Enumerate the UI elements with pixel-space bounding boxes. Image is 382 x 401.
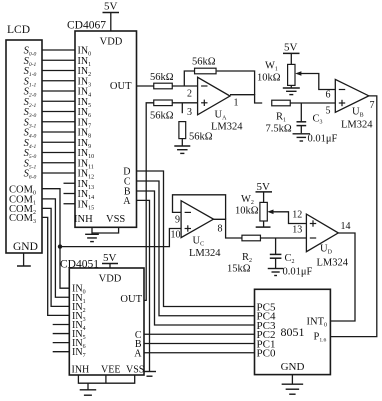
svg-text:LM324: LM324 (317, 258, 349, 269)
LCD COM pin labels COM0..COM3 (9, 184, 36, 225)
svg-text:13: 13 (292, 225, 302, 236)
capacitor C2 (270, 253, 282, 255)
UB inverting input symbol (339, 89, 345, 91)
svg-text:LM324: LM324 (341, 120, 373, 131)
svg-text:5: 5 (326, 106, 331, 117)
wire COM3 to CD4051 IN3 (42, 217, 69, 315)
W2 wiper arrow (267, 210, 273, 215)
wire C to 8051 PC4 (137, 181, 255, 316)
svg-text:56kΩ: 56kΩ (192, 57, 216, 68)
op-amp UB LM324 (335, 79, 369, 112)
microcontroller 8051 block (255, 289, 331, 374)
svg-text:10kΩ: 10kΩ (257, 73, 281, 84)
CD4051 INH VEE VSS pin labels (72, 365, 145, 376)
svg-text:56kΩ: 56kΩ (150, 72, 174, 83)
svg-text:VDD: VDD (99, 274, 122, 285)
svg-text:INT0: INT0 (307, 317, 328, 329)
wire COM2 to CD4051 IN2 (42, 208, 69, 306)
svg-text:0.01μF: 0.01μF (308, 134, 338, 145)
wire UD output to INT0 (330, 233, 355, 321)
wire feedback to output (217, 71, 255, 95)
UC non-inverting input symbol (185, 228, 191, 230)
wire UC feedback loop (173, 195, 226, 220)
wire R2 to UD pin13 (261, 237, 307, 239)
wire UB output to P1.6 (330, 96, 376, 337)
svg-text:6: 6 (326, 90, 331, 101)
wire UC output (214, 219, 243, 238)
unconnected stubs IN4..IN7 (53, 324, 70, 351)
ground (C3) (293, 133, 311, 135)
svg-text:5V: 5V (103, 252, 117, 264)
multiplexer CD4067 block (75, 31, 137, 227)
svg-text:9: 9 (175, 215, 180, 226)
svg-text:8: 8 (218, 224, 223, 235)
svg-text:INH: INH (72, 365, 90, 376)
resistor 56k (pin3 to ground) (179, 122, 186, 139)
CD4051 IN0..IN7 pin labels (72, 284, 86, 359)
op-amp UD LM324 (306, 214, 338, 252)
svg-text:7.5kΩ: 7.5kΩ (266, 124, 292, 135)
wire CD4051 C to 8051 PC2 (144, 333, 255, 335)
svg-text:A: A (123, 196, 131, 207)
CD4051 select pin labels C B A (134, 330, 142, 359)
LCD segment pin labels S0-0..S6-0 (24, 46, 37, 181)
ground (C2) (268, 268, 284, 270)
capacitor C3 (297, 121, 307, 123)
unconnected stubs IN13 IN14 IN15 (64, 183, 76, 204)
svg-text:10: 10 (171, 230, 181, 241)
svg-text:A: A (134, 348, 142, 359)
svg-text:56kΩ: 56kΩ (189, 132, 213, 143)
svg-text:VSS: VSS (126, 365, 144, 376)
multiplexer CD4051 block (69, 268, 144, 375)
svg-text:3: 3 (187, 107, 192, 118)
svg-text:0.01μF: 0.01μF (283, 267, 313, 278)
wires S0-0..S6-0 to IN0..IN12 (42, 50, 75, 173)
svg-text:GND: GND (13, 241, 38, 253)
svg-text:VSS: VSS (106, 214, 125, 225)
svg-text:LCD: LCD (7, 24, 30, 36)
ground (CD4051) (87, 383, 89, 390)
wire R1 to UB pin5 (290, 102, 335, 104)
capacitor C3 lead (300, 103, 302, 122)
svg-text:5V: 5V (284, 42, 298, 54)
svg-text:COM3: COM3 (9, 213, 36, 225)
potentiometer W1 10k body (288, 64, 295, 85)
wire B to 8051 PC3 (137, 191, 255, 325)
wire pin3 to ground resistor (181, 103, 183, 113)
capacitor C2 lead (275, 238, 277, 254)
resistor 56k (to pin3) (154, 100, 173, 106)
resistor R2 15k (242, 235, 261, 241)
UB non-inverting input symbol (339, 102, 345, 104)
wire A down to ground near CD4051 (137, 200, 150, 371)
junction COM0 tap (58, 244, 62, 248)
svg-text:OUT: OUT (120, 294, 142, 305)
op-amp UA LM324 (198, 77, 230, 115)
resistor R1 7.5k (272, 100, 291, 106)
svg-text:CD4067: CD4067 (67, 20, 106, 32)
svg-text:12: 12 (292, 209, 302, 220)
svg-text:2: 2 (187, 89, 192, 100)
UA inverting input symbol (201, 85, 207, 87)
svg-text:VDD: VDD (100, 37, 123, 48)
wire CD4051 B to 8051 PC1 (144, 343, 255, 345)
wire COM0 to CD4051 IN0 and tap (42, 189, 69, 289)
resistor 56k (input, to pin2) (154, 83, 173, 89)
UC inverting input symbol (185, 211, 191, 213)
wire resistor to ground (181, 139, 183, 146)
ground (LCD) (23, 253, 25, 266)
svg-text:INH: INH (74, 214, 93, 225)
wire COM0 to UC non-inverting input (60, 229, 181, 247)
wire feedback riser (184, 71, 194, 86)
CD4067 INH VSS pin labels (74, 214, 125, 225)
svg-text:10kΩ: 10kΩ (235, 206, 259, 217)
wire CD4051 OUT up to 56k resistor / UA pin3 (144, 103, 156, 301)
8051 PC5..PC0 pin labels (257, 301, 276, 359)
svg-text:1: 1 (234, 98, 239, 109)
svg-text:LM324: LM324 (211, 122, 243, 133)
svg-text:VEE: VEE (101, 365, 120, 376)
ground (UA pin3 network) (174, 145, 190, 147)
wire INH/VSS to ground (91, 227, 93, 234)
UA non-inverting input symbol (201, 102, 207, 104)
wire CD4051 A to 8051 PC0 (144, 352, 255, 354)
ground (8051) (291, 375, 293, 385)
svg-text:56kΩ: 56kΩ (150, 111, 174, 122)
wire D to 8051 PC5 (137, 171, 255, 307)
UD non-inverting input symbol (310, 223, 316, 225)
svg-text:LM324: LM324 (189, 248, 221, 259)
LCD block (6, 40, 42, 253)
svg-text:OUT: OUT (110, 81, 132, 92)
svg-text:CD4051: CD4051 (60, 259, 99, 271)
wire INH VEE VSS to ground (78, 375, 134, 383)
svg-text:7: 7 (370, 100, 375, 111)
svg-text:GND: GND (281, 361, 305, 373)
CD4067 select pin labels D C B A (123, 167, 131, 207)
ground (A select line) (143, 371, 156, 373)
svg-text:14: 14 (341, 221, 351, 232)
ground (CD4067) (85, 233, 99, 235)
svg-text:5V: 5V (104, 1, 118, 13)
W1 wiper arrow (295, 71, 301, 76)
wire CD4067 OUT to UA pin2 (137, 85, 198, 87)
W2 bottom terminal bar (263, 221, 265, 227)
wire pin3 input (154, 102, 198, 104)
wire UA output jog (230, 95, 262, 103)
wire COM1 to CD4051 IN1 (42, 199, 69, 297)
CD4067 IN0..IN15 pin labels (78, 46, 95, 212)
potentiometer W2 10k body (260, 202, 267, 221)
svg-text:15kΩ: 15kΩ (227, 264, 251, 275)
UD inverting input symbol (310, 237, 316, 239)
resistor 56k (feedback) (195, 68, 217, 74)
svg-text:8051: 8051 (281, 325, 305, 339)
svg-text:PC0: PC0 (257, 348, 276, 360)
op-amp UC LM324 (181, 201, 213, 238)
ground (W1) (290, 85, 292, 88)
